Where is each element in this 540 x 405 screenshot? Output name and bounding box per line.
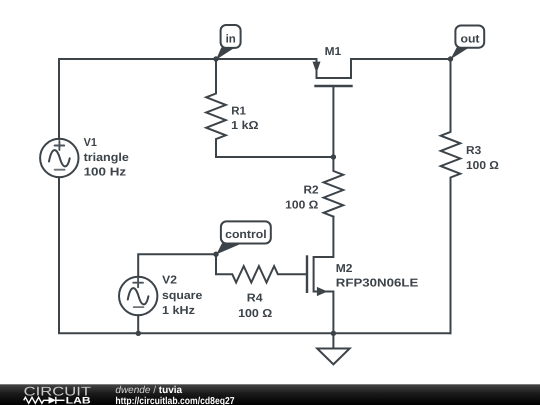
svg-text:dwende / tuvia: dwende / tuvia: [115, 385, 182, 396]
svg-text:triangle: triangle: [84, 152, 129, 164]
svg-text:R1: R1: [231, 105, 246, 117]
svg-text:out: out: [461, 34, 480, 46]
svg-text:R3: R3: [466, 145, 481, 157]
svg-text:in: in: [226, 33, 236, 45]
svg-text:M1: M1: [325, 46, 342, 58]
svg-text:http://circuitlab.com/cd8eq27: http://circuitlab.com/cd8eq27: [115, 396, 235, 405]
svg-text:1 kHz: 1 kHz: [162, 305, 195, 317]
svg-text:square: square: [162, 290, 202, 302]
svg-text:LAB: LAB: [66, 396, 91, 405]
svg-text:100 Ω: 100 Ω: [466, 160, 499, 172]
svg-text:RFP30N06LE: RFP30N06LE: [336, 277, 419, 289]
svg-text:M2: M2: [336, 263, 353, 275]
svg-text:100 Ω: 100 Ω: [238, 308, 272, 320]
svg-text:100 Hz: 100 Hz: [84, 167, 127, 179]
svg-text:R4: R4: [247, 293, 263, 305]
svg-text:1 kΩ: 1 kΩ: [231, 120, 258, 132]
svg-text:100 Ω: 100 Ω: [285, 200, 318, 212]
svg-text:control: control: [225, 229, 267, 241]
svg-text:R2: R2: [304, 184, 319, 196]
svg-text:V1: V1: [84, 137, 98, 149]
svg-text:V2: V2: [162, 275, 177, 287]
